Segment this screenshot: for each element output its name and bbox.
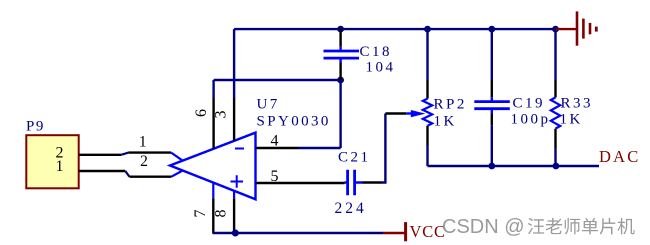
svg-text:DAC: DAC: [599, 147, 640, 166]
top ground rail wire: [234, 28, 555, 30]
op-amp U7 triangle: [170, 133, 256, 200]
junction dots on top rail: [337, 26, 344, 33]
svg-text:4: 4: [271, 133, 279, 150]
svg-text:104: 104: [366, 60, 396, 76]
watermark CSDN: [442, 216, 635, 238]
svg-text:VCC: VCC: [410, 222, 446, 241]
capacitor C18: [324, 29, 396, 80]
svg-text:5: 5: [271, 168, 279, 185]
ground symbol: [556, 11, 597, 45]
svg-text:R33: R33: [561, 96, 594, 112]
RP2 wiper arrowhead: [411, 110, 426, 117]
svg-text:C18: C18: [360, 44, 393, 60]
pin 6: [212, 80, 214, 149]
mid feedback wire: [214, 79, 341, 81]
pin 5 wire: [256, 182, 345, 184]
svg-text:U7: U7: [257, 97, 280, 113]
DAC output rail wire: [428, 165, 600, 167]
op-amp minus input mark: [235, 148, 244, 150]
svg-text:RP2: RP2: [434, 96, 467, 112]
svg-text:CSDN @: CSDN @: [442, 216, 525, 238]
pin 8: [233, 191, 235, 233]
junction dots on DAC rail: [488, 163, 495, 170]
op-amp plus input mark: [231, 175, 244, 188]
wire C21 to RP2 wiper: [382, 114, 386, 183]
junction dot pin8/VCC: [232, 230, 239, 237]
svg-text:8: 8: [212, 210, 229, 218]
svg-text:224: 224: [335, 200, 367, 217]
pin 7: [212, 183, 214, 233]
wire C18 node vertical: [339, 80, 341, 148]
op-amp U7 input diagonals: [171, 153, 182, 177]
svg-text:7: 7: [192, 210, 209, 218]
wire net2 from P9 pin1: [79, 171, 172, 177]
svg-text:6: 6: [193, 109, 210, 117]
svg-text:3: 3: [212, 111, 229, 119]
capacitor C19: [474, 29, 550, 166]
wire net1 from P9 pin2: [79, 153, 172, 155]
svg-text:SPY0030: SPY0030: [257, 114, 331, 130]
VCC power rail wire: [212, 232, 383, 234]
svg-text:1: 1: [56, 158, 64, 175]
VCC power symbol: [383, 222, 406, 241]
pin 3: [233, 29, 235, 141]
svg-text:1K: 1K: [434, 114, 457, 130]
junction dot C18 bottom: [337, 77, 344, 84]
svg-text:1: 1: [139, 134, 147, 151]
svg-text:P9: P9: [26, 119, 45, 135]
svg-text:1K: 1K: [560, 112, 583, 128]
potentiometer RP2: [423, 29, 467, 166]
pin 4 wire: [256, 147, 341, 149]
svg-text:C19: C19: [513, 96, 546, 112]
svg-text:100p: 100p: [511, 112, 551, 128]
capacitor C21: [335, 150, 382, 218]
resistor R33: [551, 29, 593, 166]
svg-text:2: 2: [140, 153, 148, 170]
svg-text:C21: C21: [338, 150, 371, 166]
connector P9: [26, 119, 79, 189]
